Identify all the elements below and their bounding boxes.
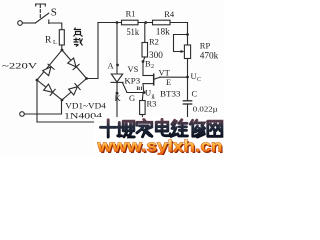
svg-text:B1: B1 [137, 86, 144, 92]
svg-text:VS: VS [128, 64, 139, 74]
capacitor C top plate [183, 100, 191, 102]
watermark char 十 [101, 120, 117, 137]
switch S lever [35, 13, 48, 23]
wire node down to R2 [144, 23, 146, 43]
potentiometer RP body [184, 45, 190, 59]
svg-text:51k: 51k [127, 27, 140, 37]
wire capacitor to bottom bus [187, 104, 189, 122]
wire terminal to switch pivot [22, 22, 35, 24]
node A dot [116, 64, 119, 67]
svg-text:R2: R2 [149, 37, 159, 47]
wire RP down to UC node [187, 59, 189, 101]
wire top bus down to SCR anode [116, 23, 118, 75]
svg-text:G: G [129, 93, 135, 103]
thyristor VS triangle [111, 74, 122, 82]
watermark char 堰 [118, 121, 135, 137]
wire R2 to B2 node [143, 57, 145, 62]
svg-text:C: C [192, 89, 198, 99]
wire junction down to R3 [141, 93, 144, 101]
wire bottom terminal to bridge bottom vertex [24, 100, 61, 114]
UJT VT base-2 stub [143, 75, 153, 77]
bridge node T (top vertex) [61, 49, 64, 52]
node K dot [116, 92, 119, 95]
RP wiper arrow [181, 50, 185, 53]
UJT VT base bar [153, 74, 155, 85]
svg-text:R1: R1 [126, 8, 136, 18]
svg-text:E: E [166, 77, 171, 87]
svg-text:U: U [145, 88, 151, 98]
wire top bus corner down right column [187, 23, 189, 46]
wire bridge left vertex down to bottom bus [36, 80, 38, 122]
node UC dot [186, 76, 189, 79]
node dot gate-B1-R3 [143, 91, 146, 94]
label 载 (load char 2) [74, 38, 83, 47]
bridge edge T-L wire [37, 50, 62, 80]
svg-text:R3: R3 [147, 99, 157, 109]
UJT VT base-1 stub [143, 83, 153, 85]
svg-text:470k: 470k [200, 50, 219, 60]
switch S actuator dashed link [39, 5, 41, 20]
watermark char 修 [190, 120, 204, 137]
svg-text:~220V: ~220V [2, 61, 37, 70]
switch S fixed contact tick [48, 20, 50, 23]
watermark row 1: Chinese site name [101, 119, 222, 137]
svg-text:BT33: BT33 [160, 89, 181, 99]
svg-text:VD1~VD4: VD1~VD4 [65, 101, 106, 110]
svg-text:18k: 18k [156, 27, 171, 37]
watermark row 2: www.sylxh.cn [96, 137, 223, 157]
RP wiper loop wire [174, 35, 188, 52]
node dot R1-R2-R4 [144, 21, 147, 24]
terminal top-left [18, 21, 23, 26]
node B2 dot [142, 60, 145, 63]
svg-text:A: A [108, 61, 115, 71]
bridge node B (bottom vertex) [61, 99, 64, 102]
wire bridge right vertex to riser [87, 23, 99, 79]
svg-text:R: R [45, 36, 52, 46]
watermark backdrop [94, 117, 224, 155]
svg-text:R4: R4 [164, 9, 175, 19]
switch S actuator T-bar [36, 4, 46, 6]
terminal bottom-left [20, 112, 25, 117]
capacitor C bottom plate [183, 103, 191, 105]
bridge node L (left vertex) [36, 79, 39, 82]
diode VD1 (upper-left edge, pointing to top vertex) [43, 64, 55, 76]
diode VD3 (lower-left edge, pointing to bottom vertex) [44, 84, 56, 95]
svg-text:RP: RP [200, 40, 211, 50]
bridge edge T-R wire [62, 50, 87, 79]
thyristor VS cathode bar [111, 81, 123, 83]
diode VD4 (lower-right edge, pointing to right vertex) [69, 84, 81, 96]
watermark char 电 [156, 119, 170, 135]
top bus wire [98, 22, 188, 24]
svg-text:0.022µ: 0.022µ [193, 105, 218, 113]
svg-text:300: 300 [149, 50, 163, 60]
label 负 (load char 1) [74, 28, 83, 37]
node dot RP wiper tap [186, 33, 189, 36]
gate wire horizontal [127, 92, 144, 94]
thyristor gate lead [123, 83, 127, 93]
wire switch to RL corner [49, 23, 62, 30]
bridge edge B-R wire [62, 79, 87, 101]
bottom bus wire [37, 121, 188, 123]
wire UJT emitter to UC node [160, 76, 188, 78]
diode VD2 (upper-right edge, pointing to right vertex) [68, 58, 80, 70]
resistor RL body [59, 30, 64, 45]
svg-text:www.sylxh.cn: www.sylxh.cn [96, 137, 222, 156]
wire B2 node down to UJT [142, 62, 144, 76]
svg-text:U: U [191, 71, 197, 81]
resistor R3 body [140, 101, 146, 115]
wire R3 to bottom bus [141, 115, 143, 123]
watermark char 家 [137, 120, 152, 137]
svg-text:VT: VT [159, 68, 171, 78]
wire RL to bridge top vertex [61, 45, 63, 50]
wire SCR cathode down to bottom bus [116, 82, 118, 122]
UJT VT emitter lead [154, 77, 160, 79]
watermark char 网 [208, 121, 222, 136]
svg-text:C: C [197, 77, 201, 83]
bridge edge L-B wire [37, 80, 62, 100]
svg-text:2: 2 [151, 64, 154, 70]
watermark char 维 [172, 120, 188, 136]
svg-text:S: S [51, 7, 57, 19]
bridge node R (right vertex) [85, 77, 88, 80]
wire UJT B1 down to gate junction [142, 84, 145, 93]
svg-text:K: K [115, 93, 122, 103]
resistor R4 body [153, 20, 171, 25]
svg-text:L: L [53, 39, 57, 46]
node dot SCR branch on top bus [116, 21, 119, 24]
resistor R1 body [122, 20, 139, 25]
resistor R2 body [142, 43, 148, 58]
svg-text:KP3: KP3 [124, 76, 140, 86]
